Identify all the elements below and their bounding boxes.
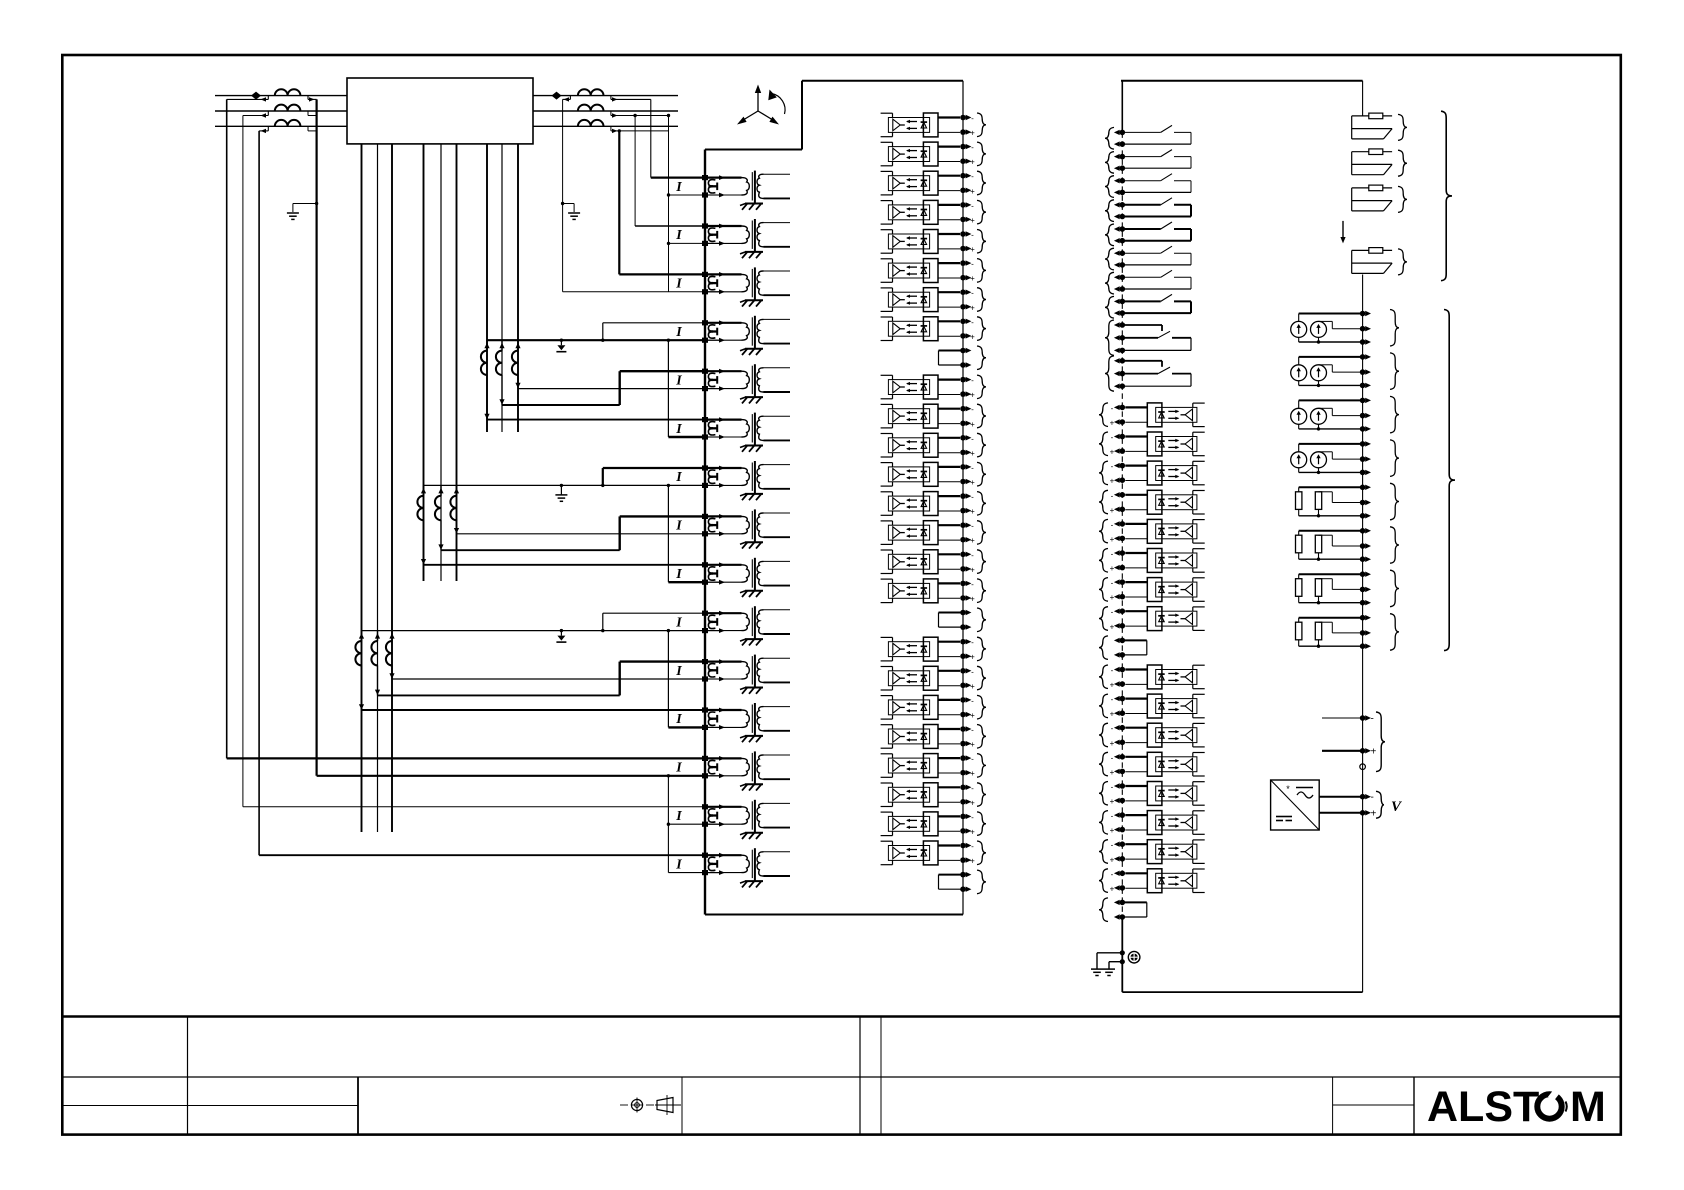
svg-text:+: + — [970, 740, 975, 749]
relay unit 2 enclosure top edge — [1121, 80, 1363, 82]
svg-text:-: - — [1371, 792, 1374, 803]
case link LK2 — [1352, 149, 1392, 175]
terminal pair for U4 — [960, 200, 986, 225]
phase-rotation symbol — [737, 85, 785, 125]
svg-text:+: + — [1110, 419, 1115, 428]
svg-text:+: + — [970, 449, 975, 458]
opto-isolated output U21 — [881, 754, 960, 778]
svg-text:+: + — [970, 391, 975, 400]
CT trio T1 secondary wiring — [484, 323, 705, 437]
analogue output source pair G2 — [1291, 357, 1363, 387]
title block cell divider v2 — [357, 1077, 359, 1135]
phase bus L2 (left section) — [215, 110, 347, 112]
terminal pair for IN1 — [1099, 403, 1125, 428]
current input transformer I15 — [675, 848, 790, 887]
svg-text:+: + — [970, 565, 975, 574]
opto input IN4 — [1125, 490, 1204, 514]
earth connection 2 — [1103, 962, 1122, 976]
output contact K2 — [1124, 150, 1191, 169]
terminal pair for U16 — [960, 579, 986, 604]
terminals for G6 — [1360, 527, 1399, 563]
svg-text:+: + — [970, 332, 975, 341]
svg-text:-: - — [971, 201, 974, 210]
current input transformer I12 — [675, 703, 790, 742]
CT coil right set phase 2 — [578, 105, 604, 111]
terminal pair for IN16 — [1099, 869, 1125, 894]
svg-text:+: + — [1110, 797, 1115, 806]
transformer pin lead 8 — [501, 144, 503, 432]
brace aux input — [1376, 712, 1385, 772]
terminal pair for IN14 — [1099, 811, 1125, 836]
svg-text:+: + — [970, 187, 975, 196]
output contact K5 — [1124, 222, 1191, 241]
svg-text:+: + — [970, 274, 975, 283]
opto-isolated output U19 — [881, 695, 960, 719]
terminal pair for IN2 — [1099, 432, 1125, 457]
svg-text:-: - — [1111, 841, 1114, 850]
svg-text:+: + — [1110, 593, 1115, 602]
svg-text:-: - — [971, 842, 974, 851]
terminals for G3 — [1360, 396, 1399, 433]
terminal pair for U2 — [960, 142, 986, 167]
opto-isolated output U3 — [881, 171, 960, 195]
terminal pair for U13 — [960, 492, 986, 516]
terminal pair for U17 — [960, 637, 986, 662]
svg-text:-: - — [971, 114, 974, 123]
svg-text:+: + — [1110, 535, 1115, 544]
current input transformer I6 — [675, 413, 790, 452]
relay unit 1 enclosure step — [705, 81, 802, 150]
svg-text:-: - — [971, 580, 974, 589]
case link LK4 — [1352, 248, 1392, 274]
case link LK3 — [1352, 185, 1392, 211]
star-point link wire I13-I15 — [667, 774, 705, 873]
protective earth terminal — [1120, 950, 1140, 964]
svg-text:-: - — [1111, 783, 1114, 792]
transformer pin lead 3 — [391, 144, 393, 832]
analogue output source pair G3 — [1291, 400, 1363, 430]
opto-isolated output U11 — [881, 433, 960, 457]
opto input IN12 — [1125, 752, 1204, 776]
svg-text:-: - — [1111, 491, 1114, 500]
svg-text:M: M — [1570, 1083, 1606, 1131]
terminal jumper loop J2 — [939, 608, 987, 632]
svg-text:ALST: ALST — [1427, 1083, 1539, 1131]
svg-text:-: - — [971, 813, 974, 822]
field voltage label V — [1391, 799, 1403, 815]
svg-text:-: - — [971, 231, 974, 240]
relay unit 2 left bus solid bottom — [1121, 917, 1123, 992]
opto input IN13 — [1125, 782, 1204, 806]
CT left set secondary S1 riser to I13 — [308, 96, 705, 776]
CT right set P1 secondary wire to I1 top — [611, 96, 705, 178]
terminal jumper loop J3 — [939, 870, 987, 894]
svg-text:I: I — [675, 664, 682, 679]
title block small cell right — [1413, 1077, 1415, 1135]
svg-text:+: + — [1371, 809, 1377, 820]
brace for LK1 — [1398, 114, 1407, 140]
svg-text:-: - — [971, 726, 974, 735]
svg-text:I: I — [675, 228, 682, 243]
terminal pair for IN8 — [1099, 607, 1125, 632]
svg-text:-: - — [1111, 753, 1114, 762]
svg-text:I: I — [675, 567, 682, 582]
relay unit 1 left bus — [704, 150, 706, 915]
CT trio T3 secondary wiring — [359, 613, 705, 727]
transformer pin lead 7 — [486, 144, 488, 432]
terminals for G2 — [1360, 353, 1399, 390]
opto input IN9 — [1125, 665, 1204, 689]
first-angle projection symbol — [620, 1095, 681, 1115]
svg-text:I: I — [675, 277, 682, 292]
svg-text:-: - — [971, 551, 974, 560]
terminal pair for IN15 — [1099, 840, 1125, 865]
svg-text:I: I — [675, 373, 682, 388]
opto-isolated output U9 — [881, 375, 960, 399]
opto-isolated output U4 — [881, 200, 960, 224]
CT coil left set phase 1 — [275, 89, 301, 95]
terminal jumper loop J1 — [939, 346, 987, 370]
svg-text:-: - — [1111, 695, 1114, 704]
svg-text:+: + — [970, 507, 975, 516]
terminals for contact K6 — [1105, 248, 1125, 270]
svg-text:I: I — [675, 325, 682, 340]
svg-text:-: - — [971, 434, 974, 443]
svg-text:+: + — [970, 303, 975, 312]
terminal pair for U21 — [960, 754, 986, 779]
CT left set phase 3 secondary S2 wire to I15 — [259, 126, 705, 855]
brace psu output — [1376, 791, 1384, 818]
relay unit 2 left bus (terminal strip) — [1121, 132, 1123, 917]
svg-text:+: + — [970, 857, 975, 866]
terminal pair for IN7 — [1099, 578, 1125, 603]
power transformer block — [347, 78, 533, 144]
transformer pin lead 1 — [361, 144, 363, 832]
CT left set phase 2 secondary S2 wire to I14 — [243, 111, 705, 807]
power supply unit — [1271, 780, 1320, 830]
svg-text:-: - — [971, 638, 974, 647]
terminal pair for U18 — [960, 666, 986, 691]
terminals for contact K2 — [1105, 152, 1125, 174]
opto-isolated output U14 — [881, 521, 960, 545]
svg-text:I: I — [675, 857, 682, 872]
svg-text:-: - — [1111, 870, 1114, 879]
current input transformer I2 — [675, 219, 790, 258]
analogue output resistor pair G5 — [1296, 487, 1363, 517]
opto input IN2 — [1125, 432, 1204, 456]
opto input IN8 — [1125, 607, 1204, 631]
svg-text:+: + — [970, 653, 975, 662]
svg-text:+: + — [1110, 681, 1115, 690]
CT coil left set phase 3 — [275, 120, 301, 126]
opto-isolated output U2 — [881, 142, 960, 166]
output contact K1 — [1124, 125, 1191, 144]
svg-text:*: * — [1286, 784, 1290, 794]
terminal pair for U9 — [960, 375, 986, 400]
left set earth branch — [287, 202, 318, 220]
CT trio T2 earth stub — [555, 484, 567, 502]
right set return link wire — [667, 114, 705, 292]
terminal pair for U1 — [960, 113, 986, 138]
terminals for G7 — [1360, 570, 1399, 607]
svg-text:-: - — [971, 318, 974, 327]
terminal pair for IN11 — [1099, 723, 1125, 748]
current input transformer I3 — [675, 267, 790, 306]
svg-text:I: I — [675, 615, 682, 630]
terminal pair for U22 — [960, 783, 986, 808]
opto-isolated output U16 — [881, 579, 960, 603]
svg-text:+: + — [1371, 747, 1377, 758]
relay unit 1 terminal bus — [962, 81, 964, 915]
input jumper loop JR2 — [1099, 898, 1147, 922]
terminals for contact K1 — [1105, 127, 1125, 149]
CT trio T3 earth stub — [556, 629, 566, 642]
CT right set P2 secondary wire to I2 top — [611, 111, 705, 226]
title block sub-row rule — [62, 1105, 358, 1107]
terminal pair for IN9 — [1099, 665, 1125, 690]
opto-isolated output U18 — [881, 666, 960, 690]
CT trio T1 earth stub — [556, 339, 566, 352]
brace for LK3 — [1398, 186, 1407, 212]
opto-isolated output U8 — [881, 317, 960, 341]
terminal pair for U19 — [960, 695, 986, 720]
opto input IN10 — [1125, 694, 1204, 718]
title block cell divider v3 — [681, 1077, 683, 1135]
terminal pair for U20 — [960, 725, 986, 750]
changeover contact K10 — [1124, 361, 1191, 386]
relay unit 2 right bus — [1362, 275, 1364, 993]
svg-text:+: + — [970, 595, 975, 604]
opto input IN7 — [1125, 578, 1204, 602]
brace for LK2 — [1398, 150, 1407, 176]
svg-text:+: + — [1110, 768, 1115, 777]
ALSTOM logo — [1427, 1083, 1606, 1131]
analogue output resistor pair G6 — [1296, 531, 1363, 561]
svg-text:-: - — [971, 405, 974, 414]
output contact K7 — [1124, 270, 1191, 289]
analogue output resistor pair G8 — [1296, 618, 1363, 648]
svg-text:+: + — [1110, 826, 1115, 835]
svg-text:+: + — [970, 536, 975, 545]
svg-text:-: - — [1111, 462, 1114, 471]
terminals for contact K4 — [1105, 200, 1125, 222]
current input transformer I9 — [675, 558, 790, 597]
current input transformer I7 — [675, 461, 790, 500]
terminals for contact K10 — [1105, 356, 1125, 391]
relay unit 2 left bus solid top — [1121, 81, 1123, 133]
CT left set phase 1 secondary S2 wire to I13 — [227, 96, 705, 759]
opto-isolated output U7 — [881, 288, 960, 312]
current input transformer I11 — [675, 655, 790, 694]
terminal pair for U23 — [960, 812, 986, 837]
opto-isolated output U13 — [881, 492, 960, 516]
svg-text:I: I — [675, 809, 682, 824]
current input transformer I5 — [675, 364, 790, 403]
svg-text:-: - — [1111, 433, 1114, 442]
svg-text:-: - — [1111, 666, 1114, 675]
analogue output source pair G1 — [1291, 314, 1363, 344]
svg-text:-: - — [971, 493, 974, 502]
svg-text:-: - — [1111, 404, 1114, 413]
current input transformer I8 — [675, 509, 790, 548]
svg-text:+: + — [1110, 739, 1115, 748]
current input transformer I4 — [675, 316, 790, 355]
transformer pin lead 2 — [377, 144, 379, 832]
relay unit 1 bottom edge — [705, 914, 963, 916]
CT right set P3 secondary wire to I3 top — [611, 126, 705, 274]
right set earth branch — [561, 202, 580, 220]
output contact K6 — [1124, 246, 1191, 265]
svg-text:+: + — [970, 216, 975, 225]
svg-text:-: - — [1111, 520, 1114, 529]
psu output wire 1 — [1319, 792, 1374, 803]
terminal pair for U15 — [960, 550, 986, 575]
current input transformer I10 — [675, 606, 790, 645]
opto-isolated output U1 — [881, 113, 960, 137]
svg-text:+: + — [970, 245, 975, 254]
transformer pin lead 5 — [440, 144, 442, 581]
svg-text:I: I — [675, 519, 682, 534]
phase bus L3 (right section) — [533, 125, 678, 127]
svg-text:-: - — [971, 784, 974, 793]
terminal pair for U7 — [960, 288, 986, 313]
title block cell divider v5 — [880, 1017, 882, 1135]
svg-text:-: - — [971, 260, 974, 269]
supervision arrow — [1340, 221, 1345, 244]
opto-isolated output U5 — [881, 230, 960, 254]
opto-isolated output U24 — [881, 841, 960, 865]
svg-text:-: - — [971, 376, 974, 385]
terminal pair for U10 — [960, 404, 986, 429]
terminal pair for U12 — [960, 462, 986, 487]
aux input wire 1 — [1322, 714, 1374, 725]
opto-isolated output U17 — [881, 637, 960, 661]
svg-text:+: + — [1110, 448, 1115, 457]
terminal pair for IN10 — [1099, 694, 1125, 719]
current input transformer I1 — [675, 171, 790, 210]
input jumper loop JR1 — [1099, 636, 1147, 660]
CT trio T3 coils — [355, 631, 394, 666]
opto input IN5 — [1125, 519, 1204, 543]
transformer pin lead 9 — [517, 144, 519, 432]
opto input IN1 — [1125, 403, 1204, 427]
svg-text:-: - — [971, 522, 974, 531]
transformer pin lead 6 — [456, 144, 458, 581]
svg-text:+: + — [1110, 564, 1115, 573]
svg-text:-: - — [971, 667, 974, 676]
svg-text:-: - — [1111, 812, 1114, 821]
phase bus L2 (right section) — [533, 110, 678, 112]
svg-text:-: - — [971, 172, 974, 181]
polarity mark left set P1 — [251, 92, 261, 100]
title block cell divider v1 — [187, 1017, 189, 1135]
transformer pin lead 4 — [423, 144, 425, 581]
title block small cell left — [1332, 1077, 1334, 1135]
earth connection 1 — [1091, 953, 1122, 976]
opto input IN11 — [1125, 723, 1204, 747]
svg-text:+: + — [1110, 477, 1115, 486]
terminal pair for U5 — [960, 230, 986, 255]
psu output wire 2 — [1319, 809, 1376, 820]
svg-text:-: - — [1111, 724, 1114, 733]
opto input IN3 — [1125, 461, 1204, 485]
analogue output source pair G4 — [1291, 444, 1363, 474]
svg-text:-: - — [1371, 714, 1374, 725]
brace for LK4 — [1398, 249, 1407, 275]
CT right set S2 wire to I3 bottom — [563, 96, 705, 292]
svg-text:I: I — [675, 180, 682, 195]
svg-text:+: + — [1110, 884, 1115, 893]
opto-isolated output U20 — [881, 725, 960, 749]
svg-text:-: - — [971, 289, 974, 298]
changeover contact K9 — [1124, 325, 1191, 350]
svg-text:-: - — [971, 143, 974, 152]
opto-isolated output U23 — [881, 812, 960, 836]
CT trio T2 secondary wiring — [421, 468, 705, 582]
terminal pair for IN13 — [1099, 782, 1125, 807]
terminal pair for U8 — [960, 317, 986, 342]
svg-text:+: + — [970, 769, 975, 778]
case link LK1 — [1352, 113, 1392, 139]
svg-text:+: + — [970, 682, 975, 691]
output contact K8 — [1124, 294, 1191, 313]
current input transformer I14 — [675, 800, 790, 839]
opto input IN16 — [1125, 869, 1204, 893]
current input transformer I13 — [675, 751, 790, 790]
title block row rule — [62, 1076, 1621, 1078]
svg-text:+: + — [970, 827, 975, 836]
relay unit 1 enclosure top edge — [802, 80, 963, 82]
svg-text:I: I — [675, 422, 682, 437]
terminals for contact K3 — [1105, 176, 1125, 198]
terminals for G4 — [1360, 440, 1399, 477]
relay unit 2 right bus top — [1362, 81, 1364, 116]
group brace (links) — [1441, 111, 1452, 281]
analogue output resistor pair G7 — [1296, 574, 1363, 604]
terminals for contact K8 — [1105, 296, 1125, 318]
phase bus L1 (right section) — [533, 95, 678, 97]
terminal pair for IN4 — [1099, 490, 1125, 515]
svg-text:+: + — [1110, 506, 1115, 515]
polarity mark right set P1 — [552, 92, 562, 100]
svg-text:+: + — [970, 478, 975, 487]
title block cell divider v4 — [859, 1017, 861, 1135]
terminals for contact K9 — [1105, 320, 1125, 355]
svg-text:-: - — [1111, 608, 1114, 617]
terminals for contact K7 — [1105, 272, 1125, 294]
title block top rule — [62, 1015, 1621, 1018]
terminal pair for U6 — [960, 259, 986, 284]
opto input IN15 — [1125, 840, 1204, 864]
svg-text:+: + — [1110, 622, 1115, 631]
terminal pair for U3 — [960, 171, 986, 196]
output contact K3 — [1124, 174, 1191, 193]
svg-text:+: + — [1110, 710, 1115, 719]
relay unit 2 bottom edge — [1122, 991, 1362, 993]
aux input wire 2 — [1322, 747, 1377, 758]
terminal pair for IN5 — [1099, 519, 1125, 544]
opto-isolated output U12 — [881, 462, 960, 486]
svg-text:-: - — [1111, 550, 1114, 559]
opto-isolated output U22 — [881, 783, 960, 807]
svg-text:-: - — [971, 755, 974, 764]
svg-text:I: I — [675, 761, 682, 776]
svg-text:I: I — [675, 712, 682, 727]
CT coil right set phase 3 — [578, 120, 604, 126]
opto input IN6 — [1125, 549, 1204, 573]
output contact K4 — [1124, 198, 1191, 217]
svg-text:+: + — [970, 129, 975, 138]
